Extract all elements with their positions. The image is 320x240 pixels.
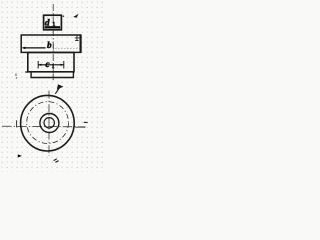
centerline dash beside b xyxy=(52,44,54,50)
small t / plus-minus mark near right edge xyxy=(75,35,80,40)
faint fleck left of hub xyxy=(15,74,17,77)
svg-text:b: b xyxy=(47,40,52,50)
stray arrow mark top right xyxy=(73,14,78,18)
small left arrowhead at lower left xyxy=(18,154,22,157)
c1 dimension extension ticks xyxy=(37,61,39,69)
small dash right of circle xyxy=(84,121,88,123)
flag / leader arrow at top of circle xyxy=(55,87,60,94)
wide middle flange outline xyxy=(21,35,80,52)
speck near box corner xyxy=(63,15,65,17)
paper background with halftone dots xyxy=(0,0,104,172)
b dimension arrow (left half) xyxy=(23,47,46,49)
vertical tick left of circle xyxy=(16,120,18,127)
bore circle xyxy=(44,118,54,128)
vertical centerline xyxy=(48,91,50,157)
thick right edge of flange xyxy=(79,35,81,53)
outer circle xyxy=(21,95,75,151)
pitch (dash-dot) circle xyxy=(27,102,69,144)
vertical centerline of front view xyxy=(52,4,54,79)
dimension line for d1 with arrowheads xyxy=(45,26,60,28)
faint right half of b dimension line xyxy=(55,48,79,50)
top small cylinder (boss) outline xyxy=(44,15,62,30)
bottom spigot step below hub xyxy=(31,72,73,77)
lower hub outline xyxy=(28,53,74,72)
horizontal centerline xyxy=(2,125,86,128)
bottom edge overshoot of hub xyxy=(25,71,28,73)
double hatch mark bottom right of circle xyxy=(54,159,57,161)
c1 dimension line xyxy=(38,64,64,66)
centerline stub below spigot xyxy=(52,74,54,80)
svg-text:c: c xyxy=(45,59,50,70)
svg-text:1: 1 xyxy=(52,64,55,70)
hub circle xyxy=(40,114,59,133)
centerline tail right of circle xyxy=(75,126,85,128)
